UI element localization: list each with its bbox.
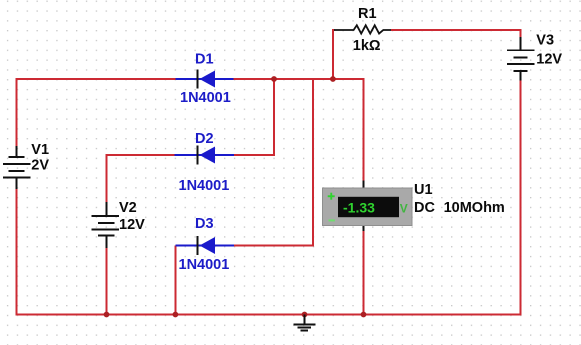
svg-text:1kΩ: 1kΩ	[353, 38, 381, 54]
svg-text:V2: V2	[119, 200, 137, 216]
svg-text:10MOhm: 10MOhm	[444, 200, 505, 216]
svg-text:12V: 12V	[536, 52, 562, 68]
svg-text:12V: 12V	[119, 217, 145, 233]
svg-text:1N4001: 1N4001	[179, 178, 230, 194]
svg-text:V3: V3	[536, 33, 554, 49]
svg-text:DC: DC	[414, 200, 435, 216]
svg-text:-1.33: -1.33	[343, 200, 375, 216]
svg-text:V: V	[400, 202, 408, 216]
svg-text:D1: D1	[195, 52, 214, 68]
svg-text:V1: V1	[31, 142, 49, 158]
svg-text:D2: D2	[195, 131, 214, 147]
svg-text:D3: D3	[195, 216, 214, 232]
svg-text:U1: U1	[414, 182, 433, 198]
svg-text:2V: 2V	[31, 158, 49, 174]
svg-text:R1: R1	[358, 6, 377, 22]
svg-text:1N4001: 1N4001	[179, 257, 230, 273]
svg-text:1N4001: 1N4001	[180, 90, 231, 106]
